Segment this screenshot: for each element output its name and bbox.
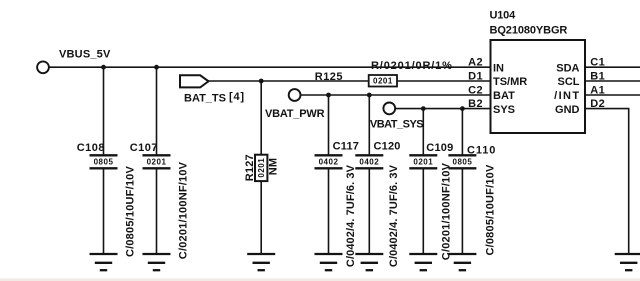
- junction C108 on VBUS net: [101, 65, 106, 70]
- off-page tag BAT_TS: [180, 75, 209, 87]
- resistor R125: [315, 71, 397, 86]
- svg-text:0201: 0201: [147, 158, 167, 167]
- wire C108 upper lead: [103, 67, 105, 155]
- junction C120 on VBAT_PWR net: [367, 93, 372, 98]
- IC U104 body: [491, 40, 586, 133]
- svg-text:A2: A2: [468, 57, 483, 69]
- svg-text:0402: 0402: [319, 158, 339, 167]
- wire VBAT_PWR net (terminal to BAT pin): [301, 94, 491, 96]
- wire C117 lower lead: [328, 169, 330, 253]
- svg-text:0201: 0201: [373, 77, 393, 86]
- capacitor C108: [77, 142, 118, 169]
- svg-text:VBUS_5V: VBUS_5V: [59, 49, 111, 61]
- wire C109 upper lead: [422, 109, 424, 156]
- ground under C110: [448, 254, 476, 270]
- wire C110 lower lead: [461, 169, 463, 253]
- resistor R127: [244, 154, 279, 181]
- wire R127 lower lead: [260, 181, 262, 253]
- svg-text:SDA: SDA: [556, 62, 579, 74]
- svg-text:C109: C109: [426, 142, 453, 154]
- wire SCL pin B1: [585, 80, 640, 82]
- ground under C120: [355, 254, 383, 270]
- wire C107 upper lead: [156, 67, 158, 155]
- svg-text:B2: B2: [468, 98, 483, 110]
- terminal VBAT_SYS: [383, 103, 395, 115]
- svg-text:C2: C2: [468, 84, 483, 96]
- svg-text:GND: GND: [555, 104, 580, 116]
- wire C110 upper lead: [461, 109, 463, 156]
- svg-text:[4]: [4]: [229, 91, 245, 103]
- svg-text:C/0201/100NF/10V: C/0201/100NF/10V: [178, 161, 190, 259]
- wire SDA pin C1: [585, 66, 640, 68]
- ground under GND pin: [615, 254, 640, 270]
- svg-text:BQ21080YBGR: BQ21080YBGR: [490, 25, 568, 37]
- ground under C108: [90, 254, 118, 270]
- ground under C109: [409, 254, 437, 270]
- capacitor C120: [355, 141, 400, 169]
- svg-text:/INT: /INT: [554, 90, 580, 102]
- svg-text:U104: U104: [490, 10, 517, 22]
- wire C107 lower lead: [156, 169, 158, 253]
- svg-text:IN: IN: [493, 62, 504, 74]
- svg-text:VBAT_PWR: VBAT_PWR: [265, 108, 325, 120]
- wire BAT_TS net (tag to R125 to TS/MR pin): [208, 80, 491, 82]
- svg-text:0201: 0201: [413, 158, 433, 167]
- junction C107 on VBUS net: [154, 65, 159, 70]
- terminal VBAT_PWR: [289, 89, 301, 101]
- wire C108 lower lead: [103, 169, 105, 253]
- wire GND pin D2: [585, 109, 629, 254]
- svg-text:BAT: BAT: [493, 90, 515, 102]
- wire /INT pin A1: [585, 94, 640, 96]
- svg-text:C110: C110: [467, 145, 496, 157]
- wire VBAT_SYS net (terminal to SYS pin): [396, 108, 491, 110]
- wire C109 lower lead: [422, 169, 424, 253]
- junction C109 on VBAT_SYS net: [421, 106, 426, 111]
- svg-text:C/0402/4. 7UF/6. 3V: C/0402/4. 7UF/6. 3V: [388, 164, 400, 267]
- svg-text:C/0805/10UF/10V: C/0805/10UF/10V: [484, 164, 496, 256]
- svg-text:SCL: SCL: [558, 76, 580, 88]
- svg-text:C/0201/100NF/10V: C/0201/100NF/10V: [440, 162, 452, 260]
- capacitor C117: [315, 141, 360, 169]
- terminal VBUS_5V: [37, 61, 49, 73]
- wire C117 upper lead: [328, 95, 330, 155]
- capacitor C109: [409, 142, 453, 168]
- svg-text:C/0402/4. 7UF/6. 3V: C/0402/4. 7UF/6. 3V: [345, 164, 357, 267]
- junction C110 on VBAT_SYS net: [460, 106, 465, 111]
- junction R127 on BAT_TS net: [259, 79, 264, 84]
- svg-text:0805: 0805: [94, 158, 114, 167]
- svg-text:C/0805/10UF/10V: C/0805/10UF/10V: [125, 166, 137, 258]
- capacitor C107: [130, 142, 171, 169]
- wire R127 upper lead: [260, 81, 262, 155]
- svg-text:0805: 0805: [453, 158, 473, 167]
- capacitor C110: [448, 145, 496, 169]
- svg-text:VBAT_SYS: VBAT_SYS: [370, 118, 423, 130]
- svg-text:NM: NM: [268, 158, 280, 176]
- wire C120 lower lead: [368, 169, 370, 253]
- svg-text:C107: C107: [130, 142, 158, 154]
- svg-text:TS/MR: TS/MR: [493, 76, 527, 88]
- junction C117 on VBAT_PWR net: [326, 93, 331, 98]
- svg-text:C108: C108: [77, 142, 105, 154]
- svg-text:D1: D1: [468, 70, 483, 82]
- ground under R127: [247, 254, 275, 270]
- wire VBUS_5V net (terminal to IN pin): [50, 66, 491, 68]
- ground under C107: [143, 254, 171, 270]
- bottom page border band: [0, 279, 640, 281]
- svg-text:R125: R125: [315, 71, 343, 83]
- svg-text:SYS: SYS: [493, 104, 515, 116]
- svg-text:R127: R127: [244, 154, 256, 181]
- svg-text:C117: C117: [333, 141, 360, 153]
- svg-text:C120: C120: [374, 141, 401, 153]
- ground under C117: [315, 254, 343, 270]
- svg-text:0402: 0402: [359, 158, 379, 167]
- svg-text:R/0201/0R/1%: R/0201/0R/1%: [371, 60, 453, 72]
- wire C120 upper lead: [368, 95, 370, 155]
- svg-text:BAT_TS: BAT_TS: [184, 92, 226, 104]
- svg-text:0201: 0201: [257, 158, 266, 178]
